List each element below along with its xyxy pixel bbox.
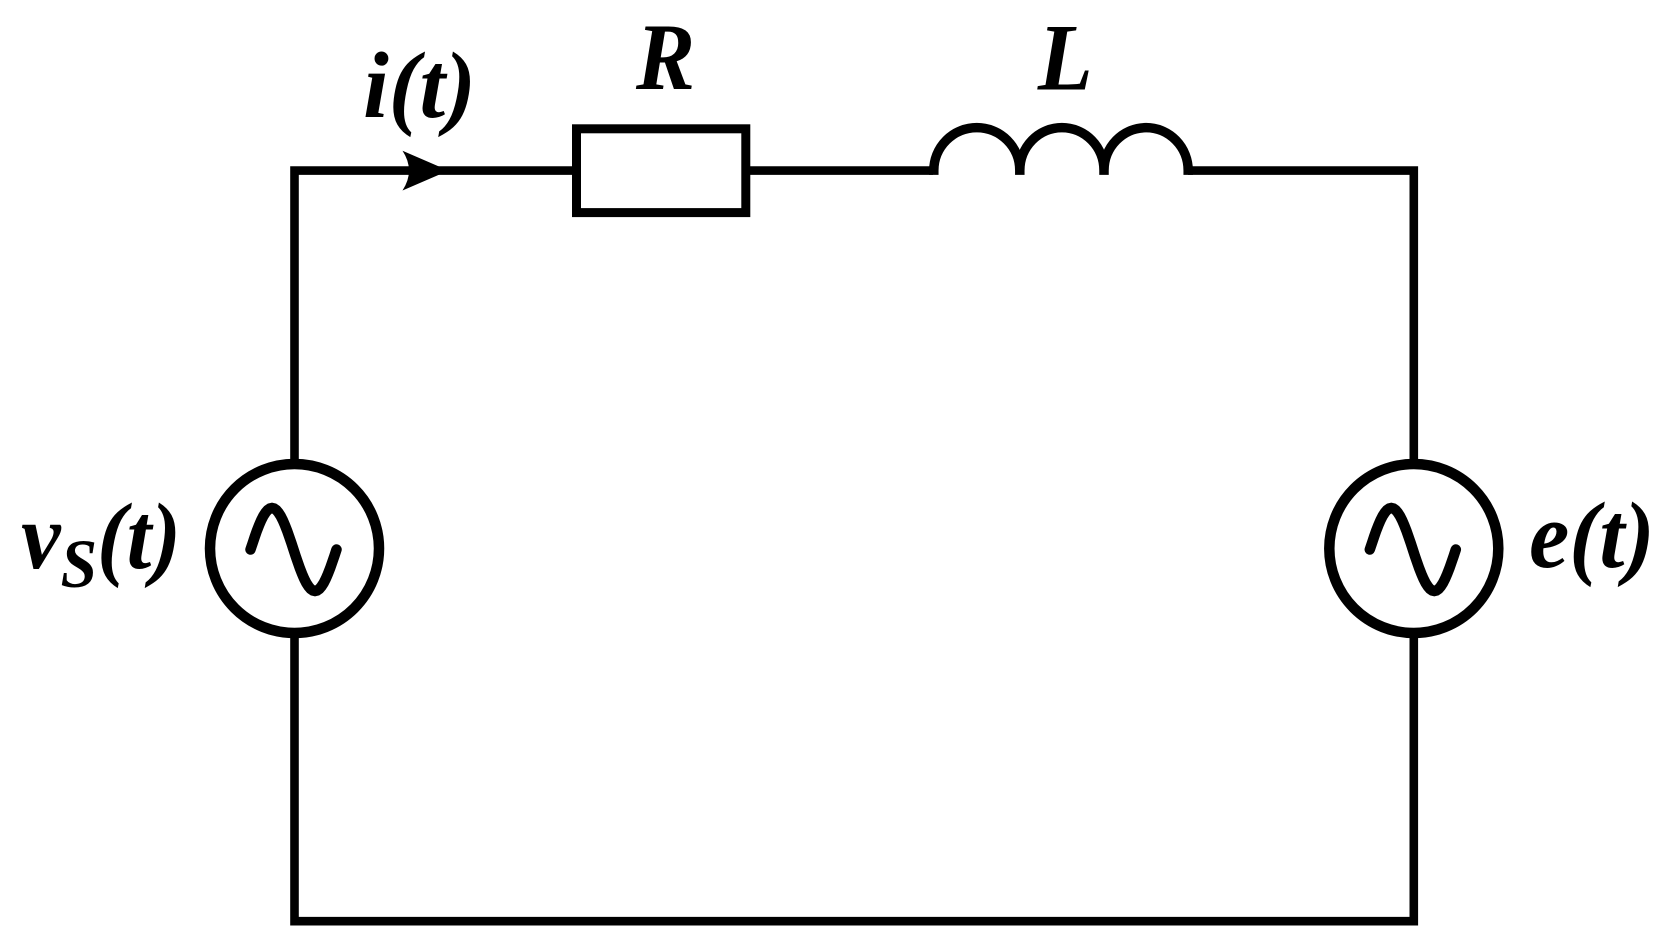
svg-text:R: R <box>635 4 695 109</box>
resistor R <box>577 129 746 213</box>
svg-text:i(t): i(t) <box>363 35 476 139</box>
current direction arrow <box>403 151 449 191</box>
AC source vS(t): sine symbol <box>251 508 337 591</box>
wire: inductor to top-right corner down to source e(t) <box>1188 171 1414 470</box>
svg-text:e(t): e(t) <box>1529 484 1654 588</box>
wire: top-left loop (left vertical upper + top horizontal to resistor) <box>295 171 577 470</box>
AC source vS(t): circle <box>210 464 379 633</box>
svg-text:vS(t): vS(t) <box>21 485 181 602</box>
svg-text:L: L <box>1037 5 1093 110</box>
wire: bottom loop from source e(t) down, across bottom, up to source vS <box>295 628 1414 921</box>
inductor L <box>934 128 1188 175</box>
wire: resistor to inductor <box>746 166 933 175</box>
AC source e(t): circle <box>1329 464 1498 633</box>
AC source e(t): sine symbol <box>1370 508 1456 591</box>
